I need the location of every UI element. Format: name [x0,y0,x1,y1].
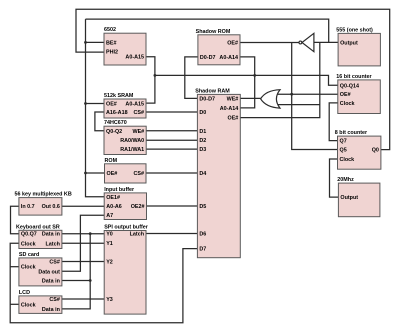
svg-text:Latch: Latch [130,232,144,238]
wire MOSI: SR Data in to SPI Y0 [62,233,104,235]
junction BE# tap [84,41,87,44]
wire 74HC670 RA1/WA1 to Shadow RAM D3 [146,148,197,150]
svg-text:Output: Output [340,40,358,46]
wire OR lower input to 555 net [278,104,320,106]
svg-text:Clock: Clock [21,302,36,308]
svg-text:A7: A7 [106,213,113,219]
svg-text:Data in: Data in [42,232,60,238]
svg-text:Y3: Y3 [106,297,113,303]
block Input buffer [104,187,146,220]
junction Shadow RAM A0-A14 riser on bus [253,74,256,77]
svg-text:Latch: Latch [46,241,60,247]
block Shadow RAM [195,88,240,257]
svg-text:ROM: ROM [105,158,118,164]
block ROM [105,158,147,183]
svg-text:A0-A14: A0-A14 [220,106,239,112]
wire inverter output to Shadow ROM OE# [240,42,299,44]
svg-text:555 (one shot): 555 (one shot) [336,27,373,33]
svg-text:Data in: Data in [42,307,60,313]
svg-text:Keyboard out SR: Keyboard out SR [16,224,60,230]
svg-text:CS#: CS# [49,297,60,303]
junction ROM OE# tap [84,172,87,175]
svg-text:Q5: Q5 [340,148,347,154]
svg-text:Input buffer: Input buffer [104,187,135,193]
svg-text:20Mhz: 20Mhz [337,177,354,183]
svg-text:OE#: OE# [340,92,351,98]
wire 8-bit counter Clock to 20Mhz Output [330,159,339,197]
block 555 (one shot) [336,27,380,66]
wire inverter output net down to 8-bit counter Q5 [292,43,338,150]
block SPI output buffer [104,225,149,315]
wire stub to 6502 BE# [86,41,105,43]
block LCD [19,290,62,314]
svg-text:A0-A15: A0-A15 [125,102,144,108]
wire 74HC670 RA0/WA0 to Shadow RAM D2 [146,139,197,141]
svg-text:Q7: Q7 [340,139,347,145]
svg-text:D0-D7: D0-D7 [199,96,215,102]
block 8 bit counter [335,130,381,169]
wire Shadow RAM WE# to OR gate output [240,97,261,99]
svg-text:CS#: CS# [49,260,60,266]
block 74HC670 [104,120,146,154]
svg-text:Shadow ROM: Shadow ROM [196,29,231,35]
wire SRAM CS# to Shadow RAM D0 [146,111,197,113]
svg-text:Data in: Data in [42,279,60,285]
svg-text:SD card: SD card [19,252,39,258]
wire BE/OE net: inner top line down to 555 output wire [86,19,329,42]
svg-text:OE1#: OE1# [106,195,120,201]
svg-text:D1: D1 [199,129,206,135]
junction MOSI at SR Data in [89,232,92,235]
junction SRAM OE# tap [84,102,87,105]
wire stub to SD card Clock [10,266,19,268]
wire KB Out 0.6 to Input buffer A0-A6 [62,205,104,207]
wire Shadow ROM A0-A14 down to Shadow RAM A0-A14 [240,57,255,108]
block 56 key multiplexed KB [15,192,72,216]
svg-text:WE#: WE# [133,129,145,135]
wire stub to SD Data in [62,280,90,282]
svg-text:Y1: Y1 [106,241,113,247]
svg-text:D4: D4 [199,171,206,177]
svg-text:D6: D6 [199,232,206,238]
junction MOSI at SD Data in [89,279,92,282]
svg-text:Out 0.6: Out 0.6 [42,204,60,210]
svg-text:A0-A15: A0-A15 [125,55,144,61]
wire ROM CS# to Shadow RAM D4 [146,172,197,174]
wire 555 net down to Shadow RAM OE# [240,42,319,117]
svg-text:OE#: OE# [228,116,239,122]
wire SRAM A16-A18 to 74HC670 Q0-Q2 [95,112,104,131]
svg-text:Clock: Clock [21,241,36,247]
block 20Mhz [337,177,380,217]
wire SPI Latch to Shadow RAM D6 [146,233,197,235]
svg-text:D0: D0 [199,110,206,116]
svg-text:D2: D2 [199,138,206,144]
svg-text:OE2#: OE2# [131,204,145,210]
wire SR Latch to SPI Y1 [62,242,104,244]
svg-text:In 0.7: In 0.7 [21,204,35,210]
svg-text:6502: 6502 [104,27,116,33]
wire SCK net: Shadow RAM D7 down, along bottom, up to SR Clock [10,243,197,322]
svg-text:74HC670: 74HC670 [104,120,127,126]
svg-text:8 bit counter: 8 bit counter [335,130,368,136]
block SD card [19,252,62,286]
svg-text:Clock: Clock [21,265,36,271]
svg-text:OE#: OE# [106,102,117,108]
svg-text:Q0.Q7: Q0.Q7 [21,232,37,238]
junction A0 bus tap at SRAM riser [154,74,157,77]
svg-text:A0-A14: A0-A14 [219,55,238,61]
wire stub to LCD Clock [10,303,19,305]
svg-text:D5: D5 [199,204,206,210]
wire SD CS# to SPI Y2 [62,261,104,263]
svg-text:D0-D7: D0-D7 [200,55,216,61]
wire MISO: SD Data out up to Input buffer A7 [62,215,104,271]
wire 6502 A0-A15 to SRAM A0-A15 [146,57,155,103]
svg-text:A16-A18: A16-A18 [106,110,128,116]
block 512k SRAM [104,93,146,118]
svg-text:SPI output buffer: SPI output buffer [104,225,149,231]
svg-text:Q0: Q0 [372,148,379,154]
block 6502 [104,27,146,65]
svg-text:CS#: CS# [134,110,145,116]
wire OR upper input to 16-bit counter OE# [277,93,338,95]
svg-text:PHI2: PHI2 [106,50,118,56]
wire A0-A14 bus to 16-bit counter Q0-Q14 [155,75,338,85]
junction OR upper input on inverter net [290,93,293,96]
inverter U2 on 555 output (points left, bubble at output) [299,33,314,51]
svg-text:56 key multiplexed KB: 56 key multiplexed KB [15,192,72,198]
svg-text:CS#: CS# [134,171,145,177]
OR gate U1 (mirrored, output left to Shadow RAM WE#) [261,90,280,108]
wire PHI2 net: 8-bit counter Q0 right, up, along top, down to 6502 PHI2 [76,9,390,149]
svg-text:LCD: LCD [19,290,30,296]
svg-text:D7: D7 [199,247,206,253]
svg-text:Q0-Q14: Q0-Q14 [340,83,359,89]
wire MOSI branch down to LCD Data in [62,234,90,309]
svg-text:OE#: OE# [107,171,118,177]
block Shadow ROM [196,29,240,65]
svg-text:A0-A6: A0-A6 [106,204,122,210]
svg-text:Data out: Data out [38,269,60,275]
wire Input buffer OE2# to Shadow RAM D5 [147,205,198,207]
wire LCD CS# to SPI Y3 [62,298,104,300]
svg-text:OE#: OE# [227,41,238,47]
svg-text:Clock: Clock [340,157,355,163]
wire 555 Output to inverter input [314,41,338,43]
wire KB In 0.7 to SR Q0.Q7 [11,206,19,234]
svg-text:RA1/WA1: RA1/WA1 [120,147,144,153]
block 16 bit counter [336,74,380,114]
svg-text:Y2: Y2 [106,260,113,266]
svg-text:RA0/WA0: RA0/WA0 [120,138,144,144]
wire 74HC670 WE# to Shadow RAM D1 [146,130,197,132]
svg-text:Clock: Clock [340,101,355,107]
wire BE/OE vertical bus down to Input buffer OE1# [86,19,105,197]
block Keyboard out SR [16,224,62,248]
svg-text:BE#: BE# [106,40,117,46]
wire Shadow ROM D0-D7 to Shadow RAM D0-D7 [185,57,198,99]
svg-text:16 bit counter: 16 bit counter [336,74,372,80]
svg-text:D3: D3 [199,147,206,153]
svg-text:Y0: Y0 [106,232,113,238]
wire 16-bit counter Clock to 8-bit counter Q7 [329,103,338,141]
svg-text:512k SRAM: 512k SRAM [104,93,134,99]
svg-text:WE#: WE# [227,96,239,102]
svg-text:Shadow RAM: Shadow RAM [195,88,230,94]
svg-text:Output: Output [340,195,358,201]
wire stub to ROM OE# [86,172,105,174]
svg-text:Q0-Q2: Q0-Q2 [106,129,122,135]
wire stub to SRAM OE# [86,103,105,105]
